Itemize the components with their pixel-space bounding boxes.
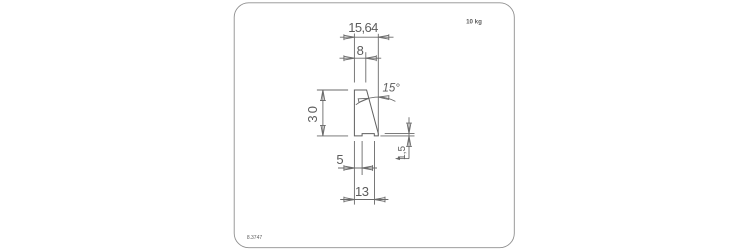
dimension 15,64 dim line — [340, 36, 394, 38]
dimension 5 right extension line — [361, 141, 363, 175]
dimension 8 dim line — [340, 57, 382, 59]
svg-text:10 kg: 10 kg — [466, 19, 482, 26]
dimension 13 dim line — [340, 199, 388, 201]
dimension 30 bottom arrow — [320, 125, 326, 135]
svg-text:13: 13 — [355, 184, 369, 199]
dimension 1,5 upper reference line — [385, 133, 415, 135]
dimension 8 right extension line — [365, 52, 367, 82]
dimension 8 left arrow — [344, 55, 355, 61]
dimension 15,64 left arrow — [344, 34, 355, 40]
svg-text:8: 8 — [357, 43, 364, 58]
dimension 13 left arrow — [344, 197, 355, 203]
svg-text:15°: 15° — [383, 82, 401, 94]
dimension 13 left extension line — [353, 141, 355, 205]
dimension 15,64 left extension line — [353, 34, 355, 83]
dimension 5 right arrow — [362, 165, 373, 171]
dimension 1,5 upper arrow — [406, 123, 412, 134]
dimension 30 top arrow — [320, 90, 326, 101]
svg-text:5: 5 — [336, 152, 343, 167]
dimension 8 right arrow — [366, 55, 377, 61]
angle dimension 15 degrees arc — [356, 97, 396, 105]
dimension 5 dim line — [338, 167, 377, 169]
dimension 1,5 lower reference line — [380, 135, 414, 137]
dimension 30 bottom extension line — [317, 135, 348, 137]
part outline — [354, 90, 378, 136]
dimension 30 dim line — [322, 90, 324, 136]
dimension 1,5 leader foot — [398, 158, 409, 160]
svg-text:30: 30 — [305, 104, 320, 123]
dimension 15,64 right arrow — [378, 34, 389, 40]
dimension 13 right arrow — [375, 197, 386, 203]
svg-text:8.3747: 8.3747 — [247, 235, 263, 241]
dimension 1,5 vertical dim line — [408, 117, 410, 158]
drawing frame — [234, 3, 514, 248]
svg-text:1,5: 1,5 — [397, 146, 408, 160]
dimension 1,5 lower arrow — [406, 136, 412, 147]
dimension 13 right extension line — [374, 141, 376, 205]
dimension 1,5 leader foot tick — [397, 158, 400, 160]
svg-text:15,64: 15,64 — [348, 20, 378, 35]
dimension 5 left arrow — [344, 165, 355, 171]
angle dimension left arrow — [358, 98, 369, 102]
dimension 30 top extension line — [317, 89, 348, 91]
angle dimension right arrow — [378, 96, 389, 100]
dimension 15,64 right extension line — [377, 34, 379, 136]
